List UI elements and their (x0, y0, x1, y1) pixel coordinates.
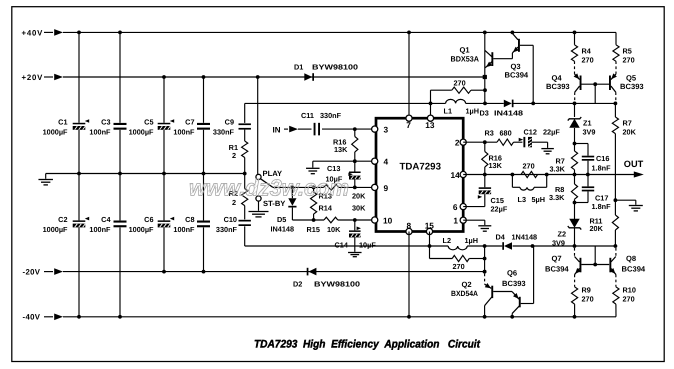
svg-text:7: 7 (406, 120, 411, 130)
svg-text:BC393: BC393 (546, 82, 570, 91)
svg-text:3V9: 3V9 (583, 127, 596, 136)
svg-text:C12: C12 (524, 128, 537, 137)
svg-text:R3: R3 (485, 128, 494, 137)
svg-text:D3: D3 (480, 109, 489, 118)
svg-text:C13: C13 (327, 164, 340, 173)
svg-text:C4: C4 (101, 215, 111, 224)
svg-text:1µH: 1µH (466, 107, 480, 116)
svg-text:100nF: 100nF (173, 225, 195, 234)
svg-text:20K: 20K (352, 191, 366, 200)
svg-text:20K: 20K (623, 127, 637, 136)
svg-text:C1: C1 (58, 117, 67, 126)
svg-text:TDA7293: TDA7293 (400, 162, 442, 173)
svg-text:D4: D4 (496, 233, 506, 242)
svg-text:680: 680 (500, 128, 512, 137)
svg-text:1.8nF: 1.8nF (592, 163, 612, 172)
svg-text:C16: C16 (596, 154, 609, 163)
svg-text:BDX53A: BDX53A (451, 55, 480, 64)
svg-text:3V9: 3V9 (552, 238, 565, 247)
svg-text:Q5: Q5 (626, 73, 637, 82)
svg-text:Q6: Q6 (507, 269, 517, 278)
svg-text:C17: C17 (595, 193, 608, 202)
svg-text:C6: C6 (144, 215, 153, 224)
svg-text:10: 10 (383, 216, 393, 226)
svg-text:L1: L1 (444, 107, 453, 116)
svg-text:R9: R9 (582, 285, 591, 294)
svg-text:BC394: BC394 (622, 264, 646, 273)
svg-text:1N4148: 1N4148 (512, 233, 538, 242)
svg-text:R7: R7 (623, 118, 632, 127)
svg-text:+40V: +40V (22, 28, 44, 37)
svg-text:1: 1 (453, 216, 458, 226)
svg-text:270: 270 (623, 294, 635, 303)
svg-text:1000µF: 1000µF (129, 225, 154, 234)
svg-text:100nF: 100nF (89, 225, 111, 234)
svg-text:10K: 10K (327, 225, 341, 234)
svg-text:OUT: OUT (624, 159, 644, 169)
svg-text:13: 13 (425, 120, 435, 130)
svg-text:Q1: Q1 (460, 46, 471, 55)
svg-text:8: 8 (407, 220, 412, 230)
svg-text:6: 6 (453, 202, 458, 212)
svg-text:C9: C9 (225, 117, 234, 126)
svg-text:1000µF: 1000µF (129, 128, 154, 137)
svg-text:3: 3 (384, 125, 389, 135)
svg-text:C8: C8 (185, 215, 194, 224)
svg-text:C2: C2 (58, 215, 67, 224)
svg-text:270: 270 (582, 56, 594, 65)
svg-text:BYW98100: BYW98100 (314, 279, 360, 288)
svg-text:Q4: Q4 (552, 73, 563, 82)
svg-text:15: 15 (425, 220, 435, 230)
svg-text:Q8: Q8 (626, 254, 636, 263)
svg-text:1000µF: 1000µF (43, 128, 68, 137)
svg-text:C14: C14 (335, 240, 349, 249)
svg-text:C10: C10 (224, 215, 237, 224)
svg-text:C3: C3 (101, 117, 110, 126)
svg-text:22µF: 22µF (543, 128, 560, 137)
svg-text:2: 2 (455, 138, 460, 148)
svg-text:1µH: 1µH (465, 236, 479, 245)
svg-text:270: 270 (623, 56, 635, 65)
svg-text:100nF: 100nF (173, 128, 195, 137)
svg-text:270: 270 (523, 162, 535, 171)
svg-text:2: 2 (232, 151, 236, 160)
svg-text:BC394: BC394 (545, 264, 569, 273)
svg-text:BC393: BC393 (620, 82, 644, 91)
svg-text:-20V: -20V (23, 268, 41, 277)
svg-text:C7: C7 (185, 117, 194, 126)
svg-text:20K: 20K (590, 224, 604, 233)
svg-text:BC393: BC393 (502, 279, 526, 288)
svg-text:Q2: Q2 (462, 280, 472, 289)
svg-text:BXD54A: BXD54A (451, 289, 478, 298)
svg-text:Q7: Q7 (552, 254, 562, 263)
svg-text:13K: 13K (489, 161, 503, 170)
svg-text:-40V: -40V (23, 313, 41, 322)
svg-text:30K: 30K (352, 204, 366, 213)
svg-text:270: 270 (454, 79, 466, 88)
svg-text:D2: D2 (293, 279, 302, 288)
svg-text:TDA7293 High Efficiency App: TDA7293 High Efficiency Application Circ… (254, 339, 481, 351)
svg-text:10µF: 10µF (359, 240, 376, 249)
svg-text:R10: R10 (623, 285, 636, 294)
svg-text:3.3K: 3.3K (549, 193, 565, 202)
svg-text:L2: L2 (443, 236, 452, 245)
svg-text:330nF: 330nF (213, 128, 235, 137)
svg-text:Z2: Z2 (558, 230, 567, 239)
svg-text:IN4148: IN4148 (494, 109, 523, 118)
svg-text:R5: R5 (623, 47, 632, 56)
svg-text:9: 9 (384, 183, 389, 193)
svg-text:270: 270 (453, 262, 465, 271)
svg-text:D1: D1 (294, 62, 303, 71)
svg-text:1000µF: 1000µF (43, 225, 68, 234)
svg-text:R14: R14 (319, 204, 333, 213)
svg-text:C5: C5 (144, 117, 153, 126)
svg-text:Z1: Z1 (583, 118, 592, 127)
svg-text:1.8nF: 1.8nF (592, 202, 612, 211)
svg-text:330nF: 330nF (320, 111, 342, 120)
svg-text:R4: R4 (582, 47, 592, 56)
svg-text:+20V: +20V (22, 73, 44, 82)
svg-text:BYW98100: BYW98100 (312, 62, 358, 71)
svg-text:D5: D5 (277, 215, 286, 224)
svg-text:C11: C11 (301, 111, 314, 120)
svg-text:R15: R15 (307, 225, 320, 234)
svg-text:IN: IN (273, 125, 281, 134)
svg-text:3.3K: 3.3K (550, 165, 566, 174)
svg-text:330nF: 330nF (216, 225, 238, 234)
svg-text:13K: 13K (334, 145, 348, 154)
svg-text:BC394: BC394 (505, 70, 529, 79)
svg-text:4: 4 (384, 157, 389, 167)
svg-text:14: 14 (450, 170, 460, 180)
svg-text:L3: L3 (518, 195, 527, 204)
svg-text:22µF: 22µF (491, 205, 508, 214)
svg-text:100nF: 100nF (89, 128, 111, 137)
svg-text:270: 270 (582, 294, 594, 303)
svg-text:5µH: 5µH (532, 195, 546, 204)
svg-text:www.dz3w.com: www.dz3w.com (189, 175, 349, 201)
svg-text:IN4148: IN4148 (271, 225, 295, 234)
